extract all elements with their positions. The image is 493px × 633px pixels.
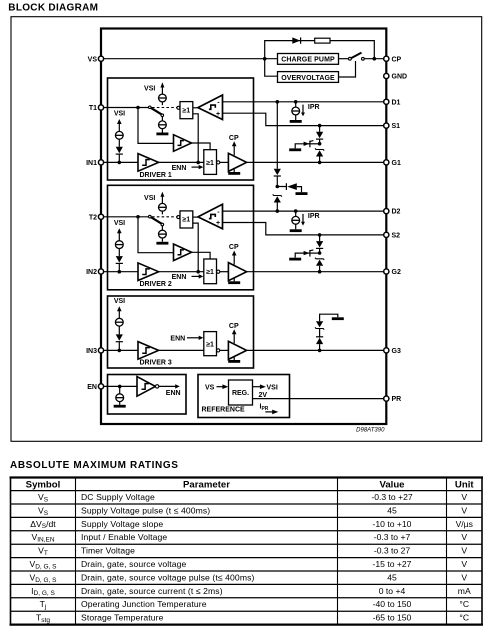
svg-text:REFERENCE: REFERENCE: [202, 407, 246, 414]
svg-text:CP: CP: [229, 323, 239, 330]
pin G1: [384, 160, 389, 165]
wire top loop with diode and resistor: [265, 41, 375, 59]
diode down from S: [316, 132, 323, 139]
current source EN: [119, 386, 121, 394]
driver 1 box: [108, 78, 254, 180]
diode D-CP on top loop: [292, 37, 300, 43]
svg-text:DRIVER 2: DRIVER 2: [140, 281, 172, 288]
wire G3 out: [247, 349, 387, 351]
zener up toward G: [315, 258, 324, 266]
svg-text:-15 to +27: -15 to +27: [373, 559, 412, 569]
chain D1 to D2 with clamp: [273, 100, 308, 213]
svg-text:V/µs: V/µs: [456, 519, 473, 529]
svg-text:IPR: IPR: [308, 104, 320, 111]
driver 1: [101, 82, 386, 175]
arrow up VSI: [118, 310, 120, 319]
charge pump block: [278, 54, 339, 65]
svg-text:Storage Temperature: Storage Temperature: [81, 613, 164, 623]
ground under output buffer: [233, 357, 235, 360]
svg-text:D98AT390: D98AT390: [356, 428, 385, 434]
wire 2V to PR pin: [253, 398, 387, 400]
svg-text:PR: PR: [392, 396, 402, 403]
pins right: [384, 56, 407, 403]
current source IPR2: [290, 209, 320, 232]
output buffer: [228, 341, 246, 359]
svg-text:Tstg: Tstg: [36, 613, 50, 624]
REG box: [229, 380, 253, 405]
svg-text:-65 to 150: -65 to 150: [373, 613, 412, 623]
diode down: [274, 169, 281, 176]
current source VSI: [115, 318, 123, 326]
svg-text:DRIVER 1: DRIVER 1: [140, 172, 172, 179]
svg-text:-10 to +10: -10 to +10: [373, 519, 412, 529]
svg-text:D1: D1: [392, 99, 401, 106]
svg-text:OVERVOLTAGE: OVERVOLTAGE: [281, 75, 335, 82]
arrow ENN into OR: [187, 337, 200, 339]
svg-text:IN3: IN3: [86, 348, 97, 355]
driver 3 box: [101, 296, 386, 368]
svg-text:Input / Enable Voltage: Input / Enable Voltage: [81, 532, 167, 542]
svg-text:VD, G, S: VD, G, S: [29, 559, 57, 570]
zener up toward G: [315, 148, 324, 156]
svg-text:GND: GND: [392, 74, 408, 81]
svg-text:EN: EN: [87, 384, 97, 391]
svg-text:ENN: ENN: [170, 336, 185, 343]
svg-text:Drain, gate, source voltage pu: Drain, gate, source voltage pulse (t≤ 40…: [81, 572, 254, 582]
pin D1: [384, 99, 389, 104]
clamp chain above G3: [315, 314, 344, 352]
svg-text:V: V: [461, 505, 467, 515]
pin EN: [98, 384, 103, 389]
pin IN1: [98, 160, 103, 165]
svg-text:Supply Voltage pulse (t ≤ 400m: Supply Voltage pulse (t ≤ 400ms): [81, 505, 210, 515]
driver 2 box: [108, 185, 254, 289]
svg-text:Parameter: Parameter: [183, 479, 230, 490]
pin D2: [384, 209, 389, 214]
wire VS branch down to overvoltage: [265, 59, 278, 76]
REFERENCE block box: [198, 375, 386, 418]
svg-text:ENN: ENN: [166, 390, 181, 397]
pin G3: [384, 348, 389, 353]
svg-text:VS: VS: [38, 492, 49, 503]
or gate: [204, 332, 217, 356]
pin S1: [384, 123, 389, 128]
svg-text:Tj: Tj: [40, 599, 47, 610]
svg-text:REG.: REG.: [232, 390, 249, 397]
svg-text:°C: °C: [459, 599, 469, 609]
svg-text:VS: VS: [38, 505, 49, 516]
clamp transistor left with ground: [304, 143, 318, 145]
wire overvoltage control to switch: [339, 61, 356, 77]
svg-text:ABSOLUTE MAXIMUM RATINGS: ABSOLUTE MAXIMUM RATINGS: [10, 460, 179, 471]
diode below: [116, 334, 123, 341]
svg-text:ID, G, S: ID, G, S: [31, 586, 55, 597]
svg-text:S2: S2: [392, 233, 401, 240]
svg-text:≥1: ≥1: [206, 342, 214, 349]
svg-text:BLOCK DIAGRAM: BLOCK DIAGRAM: [8, 3, 98, 14]
pin PR: [384, 396, 389, 401]
pin G2: [384, 269, 389, 274]
svg-text:G2: G2: [392, 269, 401, 276]
diode down from S: [316, 241, 323, 248]
svg-text:mA: mA: [458, 586, 471, 596]
svg-text:T2: T2: [89, 214, 97, 221]
pin CP: [384, 56, 389, 61]
wire EN: [101, 385, 137, 387]
svg-text:VS: VS: [88, 56, 98, 63]
svg-text:DRIVER 3: DRIVER 3: [140, 360, 172, 367]
pin VS: [98, 56, 103, 61]
outer frame box: [11, 17, 482, 442]
svg-text:VD, G, S: VD, G, S: [29, 572, 57, 583]
svg-text:VSI: VSI: [267, 384, 278, 391]
svg-text:Value: Value: [379, 479, 404, 490]
node CP junction: [373, 57, 377, 61]
pin T2: [98, 214, 103, 219]
pins left: [86, 56, 104, 391]
pin IN2: [98, 269, 103, 274]
svg-text:DC Supply Voltage: DC Supply Voltage: [81, 492, 155, 502]
wire VS to charge pump: [101, 58, 278, 60]
node VS junction: [263, 57, 267, 61]
svg-text:45: 45: [387, 505, 397, 515]
svg-text:Symbol: Symbol: [26, 479, 61, 490]
svg-text:V: V: [461, 532, 467, 542]
svg-text:CP: CP: [392, 56, 402, 63]
svg-text:V: V: [461, 546, 467, 556]
clamp transistor to ground (right branch): [285, 183, 287, 190]
svg-text:Operating Junction Temperature: Operating Junction Temperature: [81, 599, 207, 609]
arrow REG to VSI: [253, 386, 261, 388]
svg-text:Supply Voltage slope: Supply Voltage slope: [81, 519, 163, 529]
svg-text:T1: T1: [89, 105, 97, 112]
node mid: [276, 185, 280, 189]
svg-text:°C: °C: [459, 613, 469, 623]
svg-text:-0.3 to +7: -0.3 to +7: [374, 532, 411, 542]
svg-text:0 to +4: 0 to +4: [379, 586, 406, 596]
svg-text:VIN,EN: VIN,EN: [31, 532, 54, 543]
schmitt buffer EN: [137, 377, 155, 397]
svg-text:D2: D2: [392, 209, 401, 216]
diode up: [316, 337, 323, 344]
svg-text:IPR: IPR: [308, 213, 320, 220]
wire D1 down: [276, 102, 278, 169]
svg-text:-0.3 to 27: -0.3 to 27: [374, 546, 411, 556]
zener down: [315, 321, 324, 329]
clamp chain S1 to G1: [289, 124, 324, 164]
svg-text:IN1: IN1: [86, 160, 97, 167]
pin IN3: [98, 348, 103, 353]
wire switch to CP pin: [364, 58, 386, 60]
svg-text:IPR: IPR: [260, 403, 269, 412]
current source IPR1: [290, 100, 320, 123]
svg-text:VSI: VSI: [114, 298, 125, 305]
svg-text:VT: VT: [38, 546, 48, 557]
switch after charge pump: [339, 53, 365, 61]
pin T1: [98, 105, 103, 110]
zener up toward D2: [273, 194, 282, 202]
EN block box: [101, 375, 186, 415]
svg-text:Unit: Unit: [455, 479, 474, 490]
svg-text:IN2: IN2: [86, 269, 97, 276]
svg-text:2V: 2V: [259, 392, 268, 399]
svg-text:ΔVS/dt: ΔVS/dt: [30, 519, 56, 530]
overvoltage block: [278, 72, 339, 83]
svg-text:G1: G1: [392, 160, 401, 167]
arrow ENN out: [159, 385, 176, 387]
svg-text:V: V: [461, 572, 467, 582]
svg-text:V: V: [461, 492, 467, 502]
svg-text:CHARGE PUMP: CHARGE PUMP: [281, 57, 335, 64]
svg-text:Timer Voltage: Timer Voltage: [81, 546, 135, 556]
clamp chain S2 to G2: [289, 233, 324, 273]
pin S2: [384, 232, 389, 237]
schmitt buffer IN3: [138, 342, 159, 360]
svg-text:S1: S1: [392, 123, 401, 130]
pin GND: [384, 73, 389, 78]
node EN junction: [118, 385, 122, 389]
svg-text:V: V: [461, 559, 467, 569]
chip box: [101, 29, 386, 425]
resistor R-CP on top loop: [315, 38, 330, 43]
svg-text:Drain, gate, source voltage: Drain, gate, source voltage: [81, 559, 187, 569]
svg-text:G3: G3: [392, 348, 401, 355]
table ratings: [10, 478, 484, 625]
node on IN3: [118, 349, 122, 353]
clamp transistor left with ground: [304, 252, 318, 254]
svg-text:-0.3 to +27: -0.3 to +27: [371, 492, 413, 502]
driver 2: [101, 192, 386, 285]
svg-text:45: 45: [387, 572, 397, 582]
wire IN3: [101, 349, 138, 351]
svg-text:Drain, gate, source current (: Drain, gate, source current (t ≤ 2ms): [81, 586, 223, 596]
arrow VS into REG: [217, 386, 224, 388]
svg-text:-40 to 150: -40 to 150: [373, 599, 412, 609]
svg-text:VS: VS: [205, 384, 215, 391]
